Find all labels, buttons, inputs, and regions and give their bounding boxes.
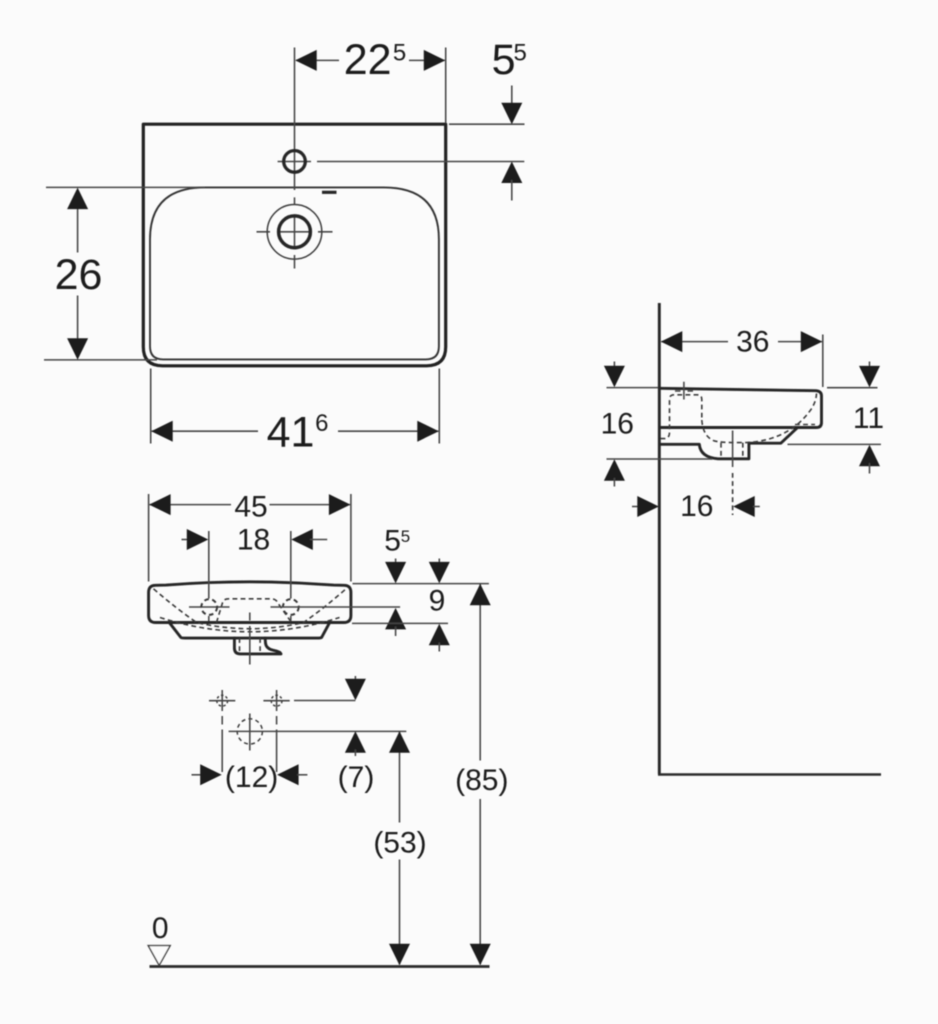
drain cross [229,714,407,751]
dimension 16 bottom arrows [632,506,640,508]
svg-text:(85): (85) [455,764,508,797]
dimension 22.5 right extension [445,48,447,124]
side dashed bowl curve [702,394,817,443]
floor line [150,965,490,968]
side rim bottom line [660,426,816,429]
dimension 41.6 line and arrows [152,430,439,432]
svg-text:16: 16 [601,408,634,441]
side dashed drain pipe [721,443,743,459]
dimension 45 extensions [149,494,351,582]
dimension 11 bottom extension [788,443,881,445]
faucet hole line through [278,161,525,163]
svg-text:18: 18 [237,524,270,557]
side dashed rim bottom right [795,424,815,426]
svg-text:16: 16 [680,490,713,523]
svg-text:41: 41 [267,409,315,457]
drain inner circle [279,216,311,248]
svg-text:0: 0 [152,912,169,945]
svg-text:5: 5 [401,527,410,546]
svg-text:(7): (7) [338,761,375,794]
dimension (7) reference line [294,700,355,702]
dimension 9 arrows [438,559,440,566]
dimension (53) line [399,731,401,964]
faucet hole [284,151,306,173]
svg-text:(53): (53) [373,827,426,860]
top view outer rim [143,124,445,366]
dimension 22.5 line and arrows [296,59,445,61]
dimension (7) arrows [354,676,356,682]
front tap hole left [189,606,230,608]
rim bottom extension [352,622,448,624]
fixing hole right [263,690,289,711]
front view dashed lower arc [160,618,340,632]
dimension 16 left arrows [613,362,615,368]
front view rim [149,582,351,623]
dimension 5.5 front arrows [395,559,397,566]
dimension 26 bottom extension [44,359,157,361]
dimension 26 top extension [46,186,205,188]
svg-text:9: 9 [429,584,446,617]
svg-text:5: 5 [492,36,516,84]
dimension (12) extensions [222,716,276,772]
drain outer circle [267,205,322,260]
front drain axis [249,613,251,665]
dimension 5.5 extension line [449,123,525,125]
svg-text:5: 5 [393,39,406,66]
dimension 16 left bottom extension [607,458,713,460]
dimension 16 left top extension [607,387,659,389]
side faucet cross [675,382,693,400]
front top edge extension [353,583,489,585]
fixing hole left [209,690,235,711]
overflow slit [322,191,337,194]
dimension 5.5 up arrow [501,162,522,184]
datum triangle [148,946,170,966]
dimension 36 line and arrows [661,341,822,343]
svg-text:5: 5 [384,525,401,558]
side drain axis [732,431,734,468]
svg-text:45: 45 [234,490,267,523]
front view dashed shelf [217,599,292,623]
dimension 41.6 extensions [151,369,440,444]
dimension 26 line and arrows [77,206,79,340]
dimension 11 arrows [869,362,871,368]
side dashed overflow channel [661,395,702,439]
front view lower body [170,623,329,638]
side floor line [658,773,881,776]
drain crosshair horizontal [257,231,333,233]
tap hole leader line [271,606,401,608]
side view outline [660,388,821,459]
svg-text:22: 22 [344,36,392,84]
svg-text:11: 11 [853,402,884,435]
dimension 18 extensions [209,531,291,621]
svg-text:6: 6 [315,410,328,437]
wall line [658,303,661,774]
svg-text:36: 36 [736,326,769,359]
dimension 5.5 down arrow [511,86,513,107]
dimension 36 right extension [822,335,824,388]
dimension (85) line [479,584,481,965]
dimension 11 top extension [827,387,878,389]
front view dashed bowl curve [154,589,347,629]
dimension (12) arrows [192,774,202,776]
front drain pipe [234,638,281,654]
front drain pipe dashed [240,638,261,653]
svg-text:26: 26 [55,251,103,299]
top view bowl outline [150,187,439,359]
dimension 45 line and arrows [150,504,350,506]
faucet centerline [294,48,296,269]
drain dashed circle [237,719,262,744]
front tap hole right [283,599,299,615]
svg-text:(12): (12) [225,761,278,794]
svg-text:5: 5 [514,39,527,66]
dimension 18 arrows [182,539,191,541]
